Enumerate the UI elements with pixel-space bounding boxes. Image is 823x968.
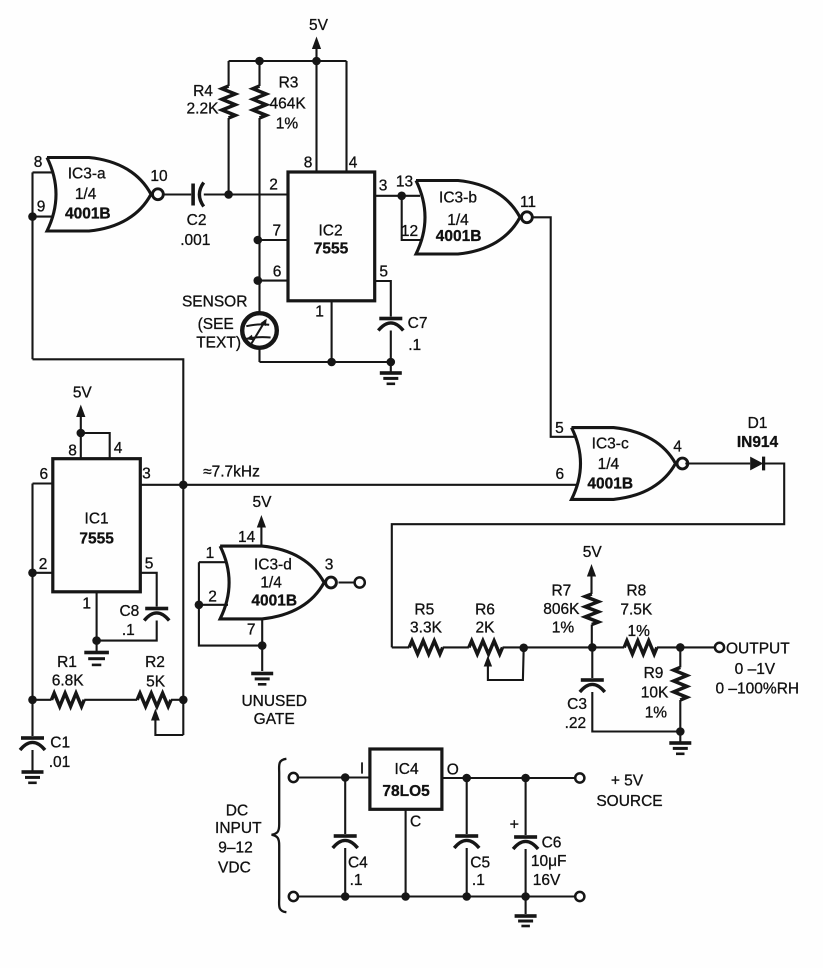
- wire IC1 left vertical: [31, 484, 33, 737]
- wire IC3-a output: [164, 193, 191, 195]
- node C6 bottom: [521, 892, 530, 901]
- svg-text:7555: 7555: [79, 531, 114, 548]
- node IC1 pin8 tie: [77, 429, 86, 438]
- svg-text:GATE: GATE: [254, 711, 295, 728]
- svg-text:2: 2: [208, 589, 217, 606]
- wire IC2 pin6: [258, 280, 288, 282]
- svg-text:1/4: 1/4: [75, 186, 97, 203]
- svg-text:78LO5: 78LO5: [382, 783, 430, 800]
- svg-text:3.3K: 3.3K: [410, 620, 443, 637]
- svg-text:2: 2: [269, 177, 278, 194]
- svg-text:SOURCE: SOURCE: [596, 793, 662, 810]
- resistor R3: [253, 86, 266, 118]
- svg-text:1/4: 1/4: [447, 212, 469, 229]
- svg-text:3: 3: [379, 178, 388, 195]
- wire C8 bottom: [97, 621, 157, 641]
- 5V arrow R7: [587, 564, 596, 577]
- svg-text:.1: .1: [472, 872, 485, 889]
- wire row to R8: [592, 646, 624, 648]
- svg-text:4: 4: [349, 155, 358, 172]
- diode D1: [750, 457, 763, 471]
- svg-text:14: 14: [238, 529, 256, 546]
- wire IC1 pin8/4 jumper: [81, 433, 110, 459]
- terminal DC in top: [289, 773, 298, 782]
- node R3 pin6 junction: [253, 276, 262, 285]
- wire IC3-a pin8 input: [33, 171, 54, 173]
- wire IC3-a pin9 input: [33, 216, 54, 218]
- svg-text:1%: 1%: [552, 620, 575, 637]
- svg-text:UNUSED: UNUSED: [241, 693, 306, 710]
- svg-text:4: 4: [114, 440, 123, 457]
- terminal IC3-d out: [355, 577, 365, 587]
- svg-text:I: I: [360, 761, 364, 778]
- capacitor C2: [191, 184, 195, 206]
- resistor R8: [624, 641, 657, 654]
- wire IC3-d pin1: [199, 561, 226, 563]
- svg-text:(SEE: (SEE: [198, 316, 234, 333]
- svg-text:1: 1: [82, 596, 91, 613]
- node output junction: [676, 643, 685, 652]
- svg-text:1: 1: [206, 545, 215, 562]
- output stub IC3-d: [339, 581, 355, 583]
- svg-text:806K: 806K: [543, 601, 580, 618]
- svg-text:5K: 5K: [146, 674, 166, 691]
- wire R6 wiper loop: [488, 648, 524, 680]
- svg-text:4001B: 4001B: [65, 206, 111, 223]
- gate IC3-c: [572, 428, 676, 500]
- node C7 ground junction: [387, 358, 396, 367]
- op IC1 box: [53, 459, 141, 592]
- svg-text:C: C: [410, 814, 421, 831]
- wire R1 left lead: [33, 699, 52, 701]
- wire C6 bottom lead: [525, 849, 527, 897]
- wire top rail left: [298, 776, 370, 778]
- capacitor C4: [334, 834, 357, 838]
- wire sensor bottom stub: [258, 348, 260, 362]
- node R4-C2 junction: [224, 190, 233, 199]
- wire R6 right: [503, 646, 593, 648]
- svg-text:IN914: IN914: [737, 434, 779, 451]
- wire IC1 pin2: [33, 572, 53, 574]
- svg-text:C8: C8: [119, 603, 139, 620]
- svg-text:6: 6: [273, 264, 282, 281]
- svg-text:IC3-d: IC3-d: [254, 557, 292, 574]
- svg-text:5V: 5V: [583, 544, 603, 561]
- svg-text:11: 11: [520, 194, 536, 211]
- svg-text:1/4: 1/4: [598, 456, 620, 473]
- resistor R7: [585, 594, 598, 625]
- svg-text:7: 7: [247, 622, 256, 639]
- wire IC3-d input loop: [199, 562, 262, 645]
- sensor symbol: [246, 324, 269, 326]
- sensor circle: [242, 313, 277, 348]
- wire C7 bottom lead: [390, 331, 392, 363]
- wire top rail right: [442, 777, 575, 779]
- arrow R2 wiper: [151, 709, 160, 721]
- node R1 left junction: [28, 696, 37, 705]
- svg-text:10μF: 10μF: [531, 853, 567, 870]
- svg-text:0 –100%RH: 0 –100%RH: [716, 681, 800, 698]
- capacitor C7: [379, 317, 402, 321]
- svg-text:TEXT): TEXT): [196, 335, 241, 352]
- svg-text:C2: C2: [187, 212, 207, 229]
- node IC3-d pin7 junction: [258, 641, 267, 650]
- wire IC2 pin7: [258, 239, 288, 241]
- svg-text:C6: C6: [542, 835, 562, 852]
- node C4 top: [341, 773, 350, 782]
- wire R8 right: [657, 646, 715, 648]
- wire IC3-b pin12 jumper: [402, 196, 422, 240]
- capacitor C3: [581, 678, 604, 682]
- svg-text:IC3-b: IC3-b: [439, 190, 477, 207]
- svg-text:R8: R8: [626, 583, 646, 600]
- node R6 wiper junction: [519, 644, 528, 653]
- wire IC3-b output: [533, 217, 577, 436]
- svg-text:IC3-a: IC3-a: [68, 166, 106, 183]
- svg-text:10K: 10K: [641, 685, 669, 702]
- svg-text:VDC: VDC: [218, 860, 251, 877]
- svg-text:C1: C1: [50, 735, 70, 752]
- svg-text:5V: 5V: [309, 17, 329, 34]
- svg-text:R9: R9: [644, 665, 664, 682]
- svg-text:IC2: IC2: [318, 223, 342, 240]
- node C6 top: [521, 774, 530, 783]
- svg-text:12: 12: [401, 223, 418, 240]
- wire C3 bottom: [592, 692, 680, 732]
- wire IC2 pin8 vertical: [315, 61, 317, 172]
- svg-text:DC: DC: [226, 803, 248, 820]
- node IC4 C bottom: [401, 892, 410, 901]
- svg-text:0 –1V: 0 –1V: [735, 661, 776, 678]
- svg-text:≈7.7kHz: ≈7.7kHz: [203, 464, 260, 481]
- capacitor C5: [455, 834, 478, 838]
- ground C6: [525, 897, 527, 915]
- wire IC1 pin6: [33, 482, 53, 484]
- gate IC3-b: [416, 181, 520, 255]
- svg-text:4001B: 4001B: [251, 593, 297, 610]
- svg-text:6.8K: 6.8K: [52, 673, 85, 690]
- svg-text:R3: R3: [279, 75, 299, 92]
- resistor R4: [222, 86, 235, 118]
- svg-text:.01: .01: [49, 754, 71, 771]
- node IC3-d input tie: [195, 601, 204, 610]
- wire IC2 pin4 vertical: [345, 61, 347, 172]
- wire IC3-c output: [685, 462, 750, 464]
- wire IC2 pin1: [331, 301, 333, 362]
- svg-text:R2: R2: [145, 654, 165, 671]
- svg-text:SENSOR: SENSOR: [182, 294, 247, 311]
- svg-text:4: 4: [673, 439, 682, 456]
- svg-text:R1: R1: [57, 654, 77, 671]
- wire C5 bottom lead: [466, 848, 468, 897]
- node R9 ground junction: [676, 727, 685, 736]
- svg-text:1/4: 1/4: [260, 575, 282, 592]
- wire IC2 pin5: [375, 281, 391, 317]
- wire row left lead: [392, 646, 409, 648]
- wire R1-R2: [84, 699, 137, 701]
- gate IC3-a: [47, 158, 151, 232]
- svg-text:2K: 2K: [476, 620, 496, 637]
- svg-text:C4: C4: [348, 855, 368, 872]
- svg-text:C3: C3: [567, 696, 587, 713]
- 5V arrow IC3-d: [257, 515, 266, 528]
- svg-text:1%: 1%: [627, 623, 650, 640]
- svg-text:2.2K: 2.2K: [187, 101, 220, 118]
- wire R5-R6: [443, 646, 469, 648]
- wire D1 output loop: [392, 464, 784, 648]
- svg-text:4001B: 4001B: [436, 228, 482, 245]
- svg-text:464K: 464K: [269, 96, 306, 113]
- svg-text:IC4: IC4: [394, 761, 419, 778]
- terminal OUTPUT: [715, 643, 724, 652]
- svg-text:10: 10: [150, 168, 168, 185]
- svg-text:5: 5: [145, 556, 154, 573]
- capacitor C4 top lead: [344, 778, 346, 835]
- svg-text:+: +: [510, 817, 519, 834]
- gate IC3-d: [220, 546, 324, 619]
- wire R9 bottom lead: [679, 700, 681, 732]
- capacitor C8: [145, 607, 168, 611]
- svg-text:9: 9: [37, 199, 46, 216]
- wire IC2 pin3 out: [375, 195, 420, 197]
- svg-text:3: 3: [325, 557, 334, 574]
- node pin1 junction: [327, 358, 336, 367]
- wire R2 right lead: [171, 699, 183, 701]
- wire top 5V rail: [229, 60, 347, 62]
- svg-text:6: 6: [39, 466, 48, 483]
- wire sensor bottom row: [260, 361, 391, 363]
- svg-text:5: 5: [555, 420, 564, 437]
- svg-text:7.5K: 7.5K: [620, 602, 653, 619]
- node R3 top: [255, 57, 264, 66]
- wire 7.7kHz line: [140, 484, 577, 486]
- node 7.7kHz junction: [179, 481, 188, 490]
- svg-text:7555: 7555: [314, 241, 349, 258]
- wire R9 top lead: [679, 647, 681, 667]
- svg-text:.1: .1: [122, 622, 135, 639]
- svg-text:IC3-c: IC3-c: [592, 436, 629, 453]
- wire IC1 pin1: [96, 592, 98, 641]
- svg-text:8: 8: [34, 154, 43, 171]
- 5V arrow IC1: [76, 405, 85, 418]
- terminal bottom right: [575, 892, 584, 901]
- svg-text:C7: C7: [408, 315, 428, 332]
- node IC1 pin2 junction: [28, 569, 37, 578]
- svg-text:4001B: 4001B: [587, 476, 633, 493]
- wire R4 bottom lead: [228, 118, 230, 195]
- svg-text:C5: C5: [470, 855, 490, 872]
- wire feedback vertical: [33, 359, 184, 735]
- capacitor C3 top lead: [591, 647, 593, 678]
- resistor R2: [137, 693, 171, 706]
- wire IC3-d pin7: [261, 619, 263, 671]
- 5V arrow (top): [312, 37, 321, 50]
- capacitor C6 top lead: [525, 778, 527, 835]
- svg-text:5: 5: [379, 264, 388, 281]
- svg-text:OUTPUT: OUTPUT: [726, 641, 790, 658]
- svg-text:16V: 16V: [533, 872, 561, 889]
- wire R7 bottom lead: [591, 625, 593, 648]
- svg-text:3: 3: [142, 466, 151, 483]
- svg-text:1: 1: [315, 304, 324, 321]
- svg-text:.22: .22: [565, 715, 587, 732]
- wire C2 to IC2 pin2: [204, 193, 288, 195]
- svg-text:5V: 5V: [253, 494, 273, 511]
- terminal +5V: [575, 773, 584, 782]
- wire R4 top lead: [228, 61, 230, 86]
- node IC3-a input tie: [28, 212, 37, 221]
- op IC2 box: [288, 172, 375, 301]
- node C5 top: [462, 774, 471, 783]
- brace DC input: [272, 759, 287, 912]
- op IC4 box: [370, 749, 442, 809]
- node IC1 pin1 ground: [92, 636, 101, 645]
- node R3 pin7 junction: [253, 236, 262, 245]
- capacitor C6: [514, 835, 537, 839]
- ground IC1 pin1: [96, 641, 98, 651]
- svg-text:8: 8: [68, 443, 77, 460]
- resistor R5: [409, 641, 443, 654]
- node R7 C3 junction: [588, 643, 597, 652]
- svg-text:.1: .1: [350, 872, 363, 889]
- wire IC1 pin5: [140, 573, 156, 607]
- ground R9: [679, 732, 681, 742]
- node 5V rail pin8: [312, 57, 321, 66]
- capacitor C5 top lead: [466, 778, 468, 834]
- svg-text:.001: .001: [180, 232, 210, 249]
- resistor R9: [674, 667, 687, 700]
- wire IC4 pin C: [405, 809, 407, 896]
- svg-text:R6: R6: [475, 602, 495, 619]
- svg-text:D1: D1: [748, 415, 768, 432]
- wire C1 bottom: [31, 750, 33, 771]
- wire R2 wiper loop: [155, 719, 183, 735]
- wire C4 bottom lead: [344, 848, 346, 897]
- svg-text:5V: 5V: [73, 385, 93, 402]
- svg-text:R7: R7: [551, 583, 571, 600]
- resistor R1: [52, 693, 85, 706]
- svg-text:6: 6: [555, 466, 564, 483]
- svg-text:O: O: [447, 762, 459, 779]
- svg-text:INPUT: INPUT: [215, 820, 262, 837]
- svg-text:R5: R5: [414, 602, 434, 619]
- node C5 bottom: [462, 892, 471, 901]
- node C4 bottom: [341, 892, 350, 901]
- capacitor C1: [21, 736, 44, 740]
- ground C1: [22, 770, 44, 774]
- svg-text:.1: .1: [408, 337, 421, 354]
- node R2 right junction: [179, 696, 188, 705]
- svg-text:2: 2: [39, 556, 48, 573]
- terminal DC in bottom: [289, 892, 298, 901]
- wire IC3-a inputs vertical: [31, 172, 33, 359]
- svg-text:R4: R4: [193, 83, 213, 100]
- wire IC3-d pin2: [199, 604, 228, 606]
- wire R3 bottom lead: [258, 118, 260, 312]
- svg-text:7: 7: [272, 223, 281, 240]
- arrow R6 wiper: [484, 656, 492, 667]
- ground C7: [390, 362, 392, 372]
- wire bottom rail: [298, 895, 575, 897]
- wire R3 top lead: [258, 61, 260, 86]
- svg-text:9–12: 9–12: [218, 840, 252, 857]
- resistor R6: [469, 641, 503, 654]
- svg-text:+ 5V: + 5V: [611, 773, 644, 790]
- ground IC3-d: [251, 672, 273, 676]
- svg-text:13: 13: [396, 174, 413, 191]
- svg-text:IC1: IC1: [85, 511, 109, 528]
- svg-text:8: 8: [304, 155, 313, 172]
- node pin13 junction: [397, 192, 406, 201]
- svg-text:1%: 1%: [276, 116, 299, 133]
- svg-text:1%: 1%: [645, 705, 668, 722]
